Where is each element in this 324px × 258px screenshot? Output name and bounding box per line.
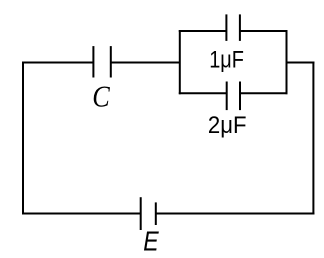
svg-text:E: E xyxy=(143,226,159,257)
wire: right side of loop xyxy=(312,62,314,215)
battery E long plate xyxy=(140,197,142,230)
wire: box top edge left part xyxy=(179,30,227,32)
wire: bottom segment from battery E to left corner xyxy=(22,213,141,215)
svg-text:1μF: 1μF xyxy=(209,46,244,73)
wire: box bottom edge left part xyxy=(179,92,227,94)
wire: top segment from capacitor C to parallel box xyxy=(111,62,180,64)
wire: box top edge right part xyxy=(240,30,288,32)
capacitor C right plate xyxy=(110,46,112,77)
wire: from box right edge to right side xyxy=(287,62,315,64)
wire: bottom segment from right corner to battery E xyxy=(156,213,315,215)
svg-text:2μF: 2μF xyxy=(208,112,247,139)
wire: box bottom edge right part xyxy=(240,92,288,94)
wire: top-left segment from corner to capacitor C xyxy=(22,62,93,64)
wire: parallel box left edge xyxy=(179,30,181,94)
wire: parallel box right edge xyxy=(286,30,288,94)
capacitor C1 (1uF) right plate xyxy=(239,14,241,41)
battery E short plate xyxy=(155,202,157,225)
capacitor C2 (2uF) right plate xyxy=(239,82,241,111)
wire: left side of loop xyxy=(22,62,24,215)
capacitor C1 (1uF) left plate xyxy=(225,14,227,41)
svg-text:C: C xyxy=(92,79,110,114)
capacitor C left plate xyxy=(92,46,94,77)
capacitor C2 (2uF) left plate xyxy=(226,82,228,111)
